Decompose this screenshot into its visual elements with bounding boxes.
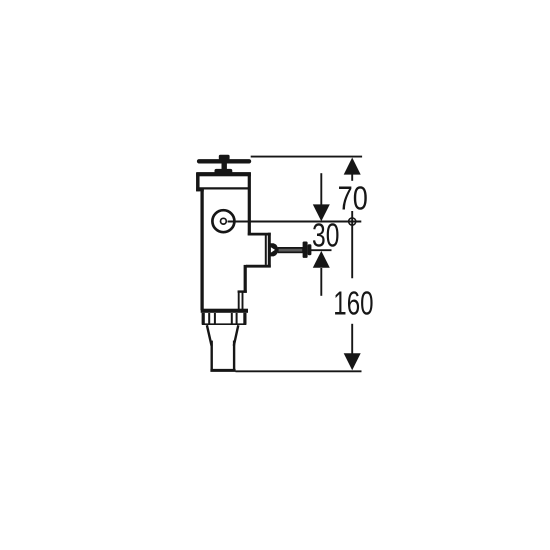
svg-text:70: 70 xyxy=(338,181,368,218)
svg-text:30: 30 xyxy=(312,218,339,255)
svg-text:160: 160 xyxy=(333,286,373,323)
